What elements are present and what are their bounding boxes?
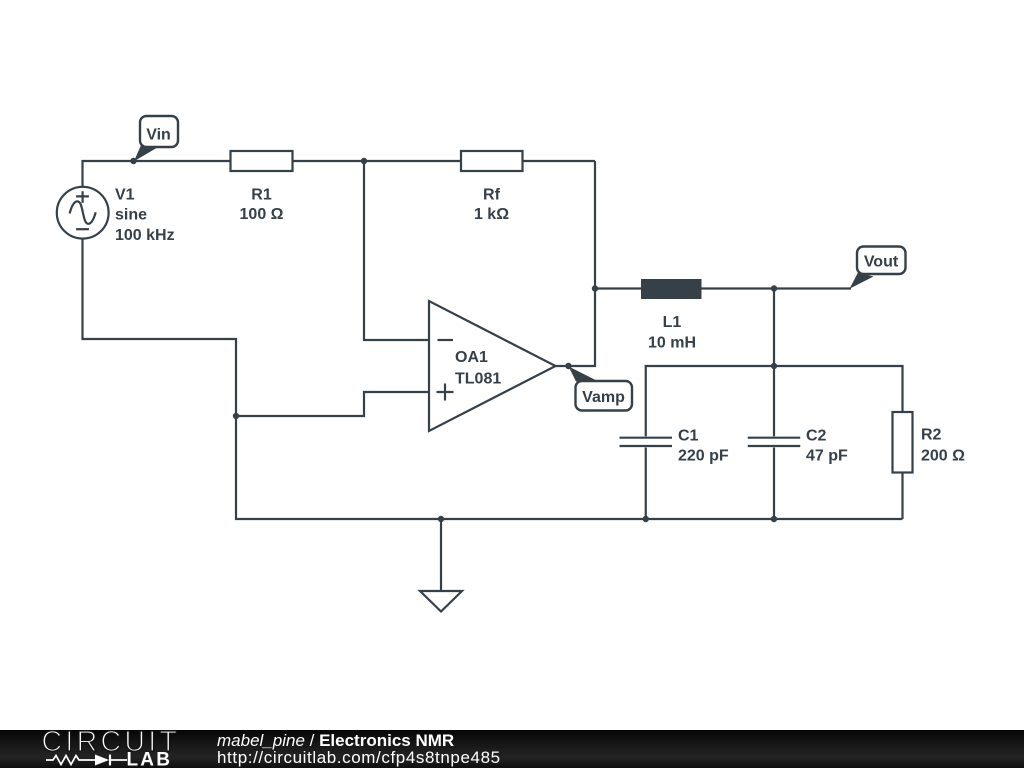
svg-text:220 pF: 220 pF [678, 448, 729, 465]
resistor Rf [461, 151, 523, 171]
wire tank top rail [646, 366, 903, 436]
voltage source V1 [57, 187, 109, 239]
svg-text:V1: V1 [115, 187, 135, 204]
resistor R2 [893, 412, 913, 473]
wire plus input branch [236, 392, 429, 416]
svg-text:Rf: Rf [483, 187, 501, 204]
svg-text:C2: C2 [806, 428, 827, 445]
svg-text:Vin: Vin [146, 127, 171, 144]
inductor L1 [641, 279, 702, 299]
capacitor C2 [748, 438, 801, 446]
node dot L1 left junction [592, 285, 598, 291]
footer title text [217, 732, 454, 749]
svg-text:R1: R1 [251, 187, 272, 204]
node dot ground junction [438, 516, 444, 522]
node dot C1 bottom junction [643, 516, 649, 522]
svg-text:TL081: TL081 [455, 371, 501, 388]
svg-text:Vamp: Vamp [582, 389, 625, 406]
node dot C2 bottom junction [771, 516, 777, 522]
wire op-amp output to vertical [556, 161, 596, 366]
wire minus input from junction [364, 161, 429, 340]
wire V1 bottom to plus-input routing [83, 238, 237, 416]
svg-text:R2: R2 [921, 427, 942, 444]
node Vamp flag [569, 366, 633, 410]
node dot plus input junction [233, 413, 239, 419]
wire output to L1 and Vout [595, 287, 851, 289]
node dot L1 right junction [771, 285, 777, 291]
footer url text [217, 749, 501, 766]
wire C1 bottom to ground rail [645, 448, 647, 520]
node dot Vin tap [130, 158, 136, 164]
wire tank branch vertical C2 top [773, 289, 775, 437]
svg-text:Vout: Vout [864, 254, 899, 271]
svg-text:200 Ω: 200 Ω [921, 448, 965, 465]
svg-text:L1: L1 [663, 314, 682, 331]
resistor R1 [231, 151, 293, 171]
svg-text:47 pF: 47 pF [806, 448, 848, 465]
ground [420, 591, 462, 612]
node dot op-amp output [565, 363, 571, 369]
wire input net: V1 top to R1 to junction [83, 161, 596, 187]
wire C2 bottom to ground rail [773, 448, 775, 520]
wire R2 bottom to ground rail [901, 473, 903, 520]
svg-text:100 Ω: 100 Ω [240, 206, 284, 223]
svg-text:100 kHz: 100 kHz [115, 227, 175, 244]
node dot R1-Rf junction [361, 158, 367, 164]
wire ground stub [440, 519, 442, 591]
svg-text:1 kΩ: 1 kΩ [474, 206, 509, 223]
capacitor C1 [620, 438, 673, 446]
node Vout flag [850, 247, 906, 289]
CircuitLab logo [0, 730, 190, 768]
op-amp OA1 [429, 301, 556, 431]
svg-text:OA1: OA1 [455, 349, 488, 366]
node dot tank top junction [771, 363, 777, 369]
svg-text:sine: sine [115, 207, 147, 224]
node Vin flag [134, 116, 178, 161]
svg-text:10 mH: 10 mH [648, 335, 696, 352]
svg-text:LAB: LAB [127, 750, 173, 768]
wire ground net bottom rail [236, 416, 903, 519]
svg-text:C1: C1 [678, 428, 699, 445]
